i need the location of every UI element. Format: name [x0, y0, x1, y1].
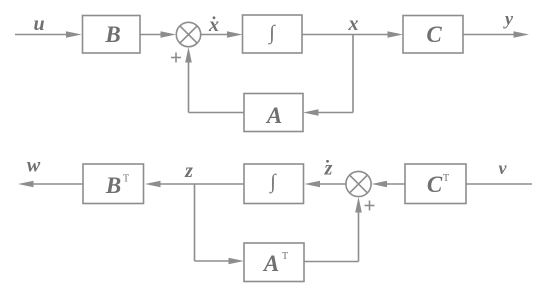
arrowhead into integrator top	[227, 31, 243, 38]
summing junction top	[176, 22, 200, 46]
arrowhead into At	[229, 258, 245, 265]
block C transpose	[405, 164, 466, 204]
svg-text:∫: ∫	[268, 171, 277, 194]
wire node z down	[194, 184, 196, 261]
wire B to summer	[140, 34, 162, 36]
wire u input	[15, 34, 67, 36]
block A	[244, 94, 303, 132]
wire down to A	[317, 112, 353, 114]
arrowhead into C	[388, 31, 404, 38]
wire z branch to At	[195, 260, 231, 262]
wire integrator to C with node x	[302, 34, 389, 36]
arrowhead into summer top	[161, 31, 177, 38]
wire Ct to summer	[386, 183, 406, 185]
block B	[83, 16, 141, 54]
svg-text:z: z	[184, 160, 193, 182]
svg-text:B: B	[105, 173, 121, 198]
svg-text:∫: ∫	[267, 22, 276, 45]
wire v input	[466, 183, 532, 185]
wire summer to integrator	[201, 34, 229, 36]
svg-text:T: T	[443, 173, 449, 184]
arrowhead into integrator bottom	[305, 181, 321, 188]
svg-text:T: T	[282, 251, 288, 262]
arrowhead into summer bottom	[372, 181, 388, 188]
wire summer to integrator bottom	[319, 183, 347, 185]
block C	[403, 16, 463, 54]
arrowhead into Bt	[145, 181, 161, 188]
svg-text:C: C	[427, 172, 443, 197]
arrowhead y output	[514, 31, 530, 38]
block integrator bottom	[244, 164, 304, 204]
arrowhead u into B	[66, 31, 82, 38]
block B transpose	[83, 164, 144, 204]
svg-text:A: A	[262, 251, 279, 276]
wire integrator to Bt with node z	[159, 183, 244, 185]
svg-text:C: C	[426, 22, 442, 47]
wire node x down	[352, 35, 354, 113]
svg-text:y: y	[503, 9, 514, 29]
svg-text:T: T	[123, 174, 129, 185]
block integrator top	[243, 15, 303, 53]
arrowhead up into summer bottom	[355, 197, 362, 213]
plus sign top	[171, 57, 181, 59]
svg-text:v: v	[499, 158, 508, 178]
svg-text:x: x	[348, 13, 359, 35]
wire A to summer	[189, 112, 245, 114]
wire At to summer bottom	[304, 261, 359, 263]
svg-text:A: A	[265, 103, 282, 128]
svg-text:w: w	[27, 155, 41, 177]
arrowhead up into summer top	[185, 47, 192, 63]
summing junction bottom	[346, 171, 371, 196]
plus sign bottom	[365, 205, 375, 207]
arrowhead w output	[18, 181, 34, 188]
wire C to y output	[463, 34, 515, 36]
block A transpose	[244, 243, 304, 282]
arrowhead into A	[303, 109, 319, 116]
wire w output	[33, 183, 83, 185]
svg-text:B: B	[104, 22, 120, 47]
svg-text:u: u	[33, 13, 44, 35]
